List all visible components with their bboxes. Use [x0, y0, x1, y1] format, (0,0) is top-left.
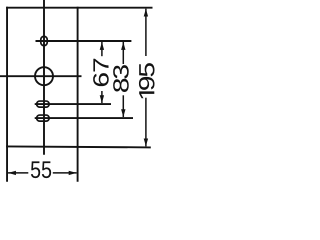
part outline top edge / 195 extension line	[6, 7, 152, 9]
arrowhead 55 right	[69, 171, 77, 175]
extension line from top slot center	[36, 40, 132, 42]
arrowhead 195 down	[144, 138, 148, 146]
dimension line 55 right shaft	[53, 172, 77, 174]
dimension line 195 upper segment	[145, 9, 147, 56]
dimension text 67 (rotated)	[93, 59, 109, 86]
dimension line 83 lower segment	[122, 95, 124, 117]
dimension line 83 upper segment	[122, 42, 124, 64]
extension line from slot A center	[35, 103, 111, 105]
arrowhead 83 down	[121, 109, 125, 117]
arrowhead 55 left	[8, 171, 16, 175]
dimension line 195 lower segment	[145, 98, 147, 147]
bottom slot B (horizontal obround hole)	[37, 115, 50, 121]
dimension line 55 left shaft	[8, 172, 28, 174]
top slot (vertical obround hole)	[41, 36, 47, 45]
dimension text 195 (rotated)	[139, 63, 155, 98]
arrowhead 67 up	[100, 42, 104, 50]
extension line from slot B center	[35, 117, 133, 119]
arrowhead 83 up	[121, 42, 125, 50]
circle (large hole)	[35, 67, 53, 85]
part outline right edge / 55 extension line	[77, 7, 79, 182]
bottom slot A (horizontal obround hole)	[37, 101, 50, 107]
horizontal centerline through circle	[0, 75, 82, 77]
vertical centerline	[43, 0, 45, 155]
arrowhead 67 down	[100, 95, 104, 103]
part outline bottom edge / 195 extension line	[6, 146, 151, 147]
arrowhead 195 up	[144, 9, 148, 17]
dimension text 55	[31, 161, 51, 178]
dimension line 67 upper segment	[101, 42, 103, 56]
part outline left edge / 55 extension line	[6, 7, 8, 182]
dimension text 83 (rotated)	[113, 65, 129, 92]
dimension line 67 lower segment	[101, 91, 103, 103]
